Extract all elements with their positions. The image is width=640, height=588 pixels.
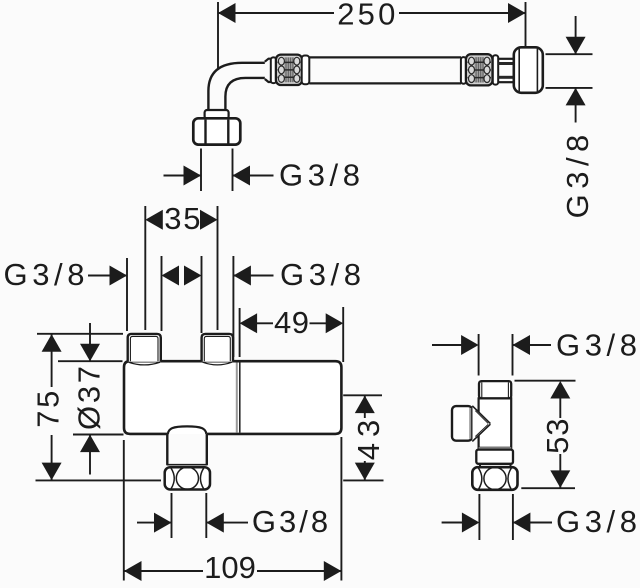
dimension right G3/8 extension lines bbox=[546, 53, 593, 55]
dimension left G3/8 arrow bbox=[110, 266, 128, 286]
dimension bottom-right G3/8 line bbox=[442, 522, 462, 524]
svg-text:G3/8: G3/8 bbox=[279, 157, 365, 192]
gap arrow right bbox=[184, 266, 202, 286]
dimension 250 line right bbox=[399, 12, 526, 14]
dimension 250 line left bbox=[218, 12, 334, 14]
dimension top-right G3/8 line right bbox=[513, 344, 552, 346]
dimension bottom-right G3/8 arrow right bbox=[513, 513, 531, 533]
dimension 49 extension line left bbox=[239, 308, 241, 357]
valve body outline bbox=[124, 361, 341, 434]
dimension 75 arrow bottom bbox=[42, 463, 62, 481]
dimension bottom G3/8 arrow left bbox=[154, 513, 172, 533]
node extension line C bbox=[161, 256, 163, 331]
dimension 250 arrow left bbox=[218, 3, 236, 23]
dimension 109 arrow left bbox=[124, 561, 142, 581]
angle valve neck bbox=[479, 464, 481, 467]
hose left crimp left bar bbox=[271, 57, 276, 83]
hose elbow collar bbox=[205, 110, 229, 119]
dimension bottom-right G3/8 arrow left bbox=[462, 513, 480, 533]
dimension 75 extension top bbox=[37, 333, 123, 335]
hose right crimp left bar bbox=[461, 57, 466, 84]
dimension 250 extension line right bbox=[525, 2, 527, 46]
dimension 49 line right bbox=[310, 322, 327, 324]
dimension 250 arrow right bbox=[508, 3, 526, 23]
dimension 250 extension line left bbox=[217, 2, 219, 69]
dimension Ø37 line top bbox=[89, 323, 91, 361]
dimension 75 line bottom bbox=[51, 435, 53, 480]
dimension left G3/8 line bbox=[88, 275, 127, 277]
svg-text:G3/8: G3/8 bbox=[252, 504, 331, 539]
angle valve nut bbox=[472, 467, 517, 490]
dimension 53 arrow bottom bbox=[550, 470, 570, 488]
dimension bottom G3/8 line right bbox=[206, 522, 248, 524]
hose right nut bbox=[514, 47, 543, 93]
dimension top-right G3/8 extension lines bbox=[478, 334, 480, 376]
svg-text:G3/8: G3/8 bbox=[280, 257, 366, 292]
dimension 49 arrow left bbox=[240, 313, 258, 333]
hose right crimp sleeve body bbox=[466, 54, 493, 85]
dimension 109 extension left bbox=[123, 440, 125, 581]
dimension 109 extension right bbox=[340, 437, 342, 581]
svg-text:G3/8: G3/8 bbox=[3, 257, 89, 292]
dimension bottom G3/8 line left bbox=[137, 522, 172, 524]
angle valve left stub bbox=[452, 406, 472, 441]
dimension Ø37 extension bottom bbox=[73, 434, 124, 436]
dimension 43 arrow top bbox=[355, 396, 375, 414]
dimension 109 line left bbox=[124, 570, 203, 572]
outlet joint line bbox=[167, 464, 208, 466]
dimension hose G3/8 extension lines bbox=[200, 149, 202, 192]
dimension Ø37 extension top bbox=[58, 360, 123, 362]
dimension 53 line top bbox=[559, 398, 561, 418]
dimension mid-right G3/8 arrow bbox=[233, 266, 251, 286]
dimension hose G3/8 line left bbox=[164, 175, 202, 177]
svg-text:49: 49 bbox=[274, 305, 309, 340]
dimension hose G3/8 arrow right bbox=[233, 166, 251, 186]
dimension hose G3/8 line right bbox=[233, 175, 274, 177]
dimension 43 line top bbox=[364, 396, 366, 418]
outlet stub sides bbox=[166, 434, 168, 465]
svg-text:250: 250 bbox=[337, 0, 398, 32]
dimension top-right G3/8 line bbox=[432, 344, 462, 346]
dimension 43 extension bottom bbox=[343, 479, 383, 481]
hose right connector bbox=[498, 58, 514, 60]
hose left crimp sleeve body bbox=[276, 55, 302, 85]
dimension Ø37 arrow top bbox=[80, 344, 100, 362]
hose left crimp right bar bbox=[302, 56, 310, 85]
dimension 49 arrow right bbox=[326, 313, 344, 333]
svg-text:G3/8: G3/8 bbox=[560, 129, 595, 218]
dimension right G3/8 line top bbox=[575, 16, 577, 54]
dimension 43 extension top bbox=[343, 394, 382, 396]
dimension 75 line top bbox=[51, 334, 53, 387]
dimension hose G3/8 arrow left bbox=[184, 166, 202, 186]
dimension top-right G3/8 arrow left bbox=[461, 335, 479, 355]
dimension Ø37 line bottom bbox=[89, 435, 91, 475]
dimension right G3/8 arrow top bbox=[566, 37, 586, 55]
dimension 35 arrow left bbox=[145, 210, 163, 230]
svg-text:43: 43 bbox=[351, 414, 386, 460]
angle valve collar bbox=[476, 450, 513, 464]
inlet stub 1 bbox=[128, 334, 161, 362]
inlet stub 1 fillet bbox=[129, 362, 160, 365]
hose right crimp right bar bbox=[493, 55, 498, 84]
dimension bottom G3/8 arrow right bbox=[206, 513, 224, 533]
hose tube top edge bbox=[309, 56, 461, 58]
valve body joint line black bbox=[239, 363, 241, 433]
dimension mid-right G3/8 line bbox=[233, 275, 273, 277]
node extension line A bbox=[126, 258, 128, 331]
dimension 75 extension bottom bbox=[36, 479, 162, 481]
dimension Ø37 arrow bottom bbox=[80, 435, 100, 453]
dimension bottom-right G3/8 extension lines bbox=[478, 494, 480, 540]
dimension bottom-right G3/8 line right bbox=[513, 522, 552, 524]
angle valve cone bbox=[473, 405, 492, 442]
dimension right G3/8 arrow bottom bbox=[566, 88, 586, 106]
angle valve cap bbox=[479, 381, 511, 398]
gap arrow left bbox=[162, 266, 180, 286]
dimension 75 arrow top bbox=[42, 334, 62, 352]
dimension 43 line bottom bbox=[364, 461, 366, 480]
dimension 53 extension top bbox=[515, 380, 576, 382]
hose elbow tube bbox=[208, 63, 264, 111]
outlet nut bbox=[165, 467, 210, 489]
hose elbow flare bbox=[265, 59, 271, 82]
dimension 109 arrow right bbox=[324, 561, 342, 581]
svg-text:53: 53 bbox=[540, 418, 575, 454]
dimension 53 line bottom bbox=[559, 454, 561, 488]
hose elbow nut bbox=[193, 118, 240, 144]
inlet stub 2 bbox=[202, 334, 233, 362]
dimension 53 arrow top bbox=[550, 381, 570, 399]
dimension 109 line right bbox=[257, 570, 341, 572]
svg-text:G3/8: G3/8 bbox=[556, 504, 640, 539]
svg-text:35: 35 bbox=[164, 201, 202, 236]
dimension 35 arrow right bbox=[200, 210, 218, 230]
svg-text:G3/8: G3/8 bbox=[556, 328, 640, 363]
dimension 49 extension line right bbox=[342, 307, 344, 362]
angle valve gray band bbox=[479, 447, 512, 449]
dimension 49 line left bbox=[257, 322, 273, 324]
angle valve body bbox=[479, 398, 512, 447]
dimension bottom G3/8 extension lines bbox=[171, 493, 173, 538]
valve body joint line gray bbox=[236, 363, 238, 433]
dimension 35 extension lines bbox=[144, 206, 146, 330]
node extension line F bbox=[232, 256, 234, 357]
node extension line D bbox=[201, 256, 203, 333]
svg-text:109: 109 bbox=[204, 550, 256, 585]
svg-text:Ø37: Ø37 bbox=[72, 363, 107, 430]
svg-text:75: 75 bbox=[30, 388, 65, 428]
dimension 43 arrow bottom bbox=[355, 463, 375, 481]
hose tube bottom edge bbox=[309, 82, 461, 84]
outlet dome bbox=[168, 426, 206, 434]
dimension top-right G3/8 arrow right bbox=[513, 335, 531, 355]
dimension 53 extension bottom bbox=[521, 487, 575, 489]
inlet stub 2 fillet bbox=[203, 362, 232, 365]
valve body fill bbox=[124, 361, 341, 434]
dimension right G3/8 line bottom bbox=[575, 88, 577, 123]
